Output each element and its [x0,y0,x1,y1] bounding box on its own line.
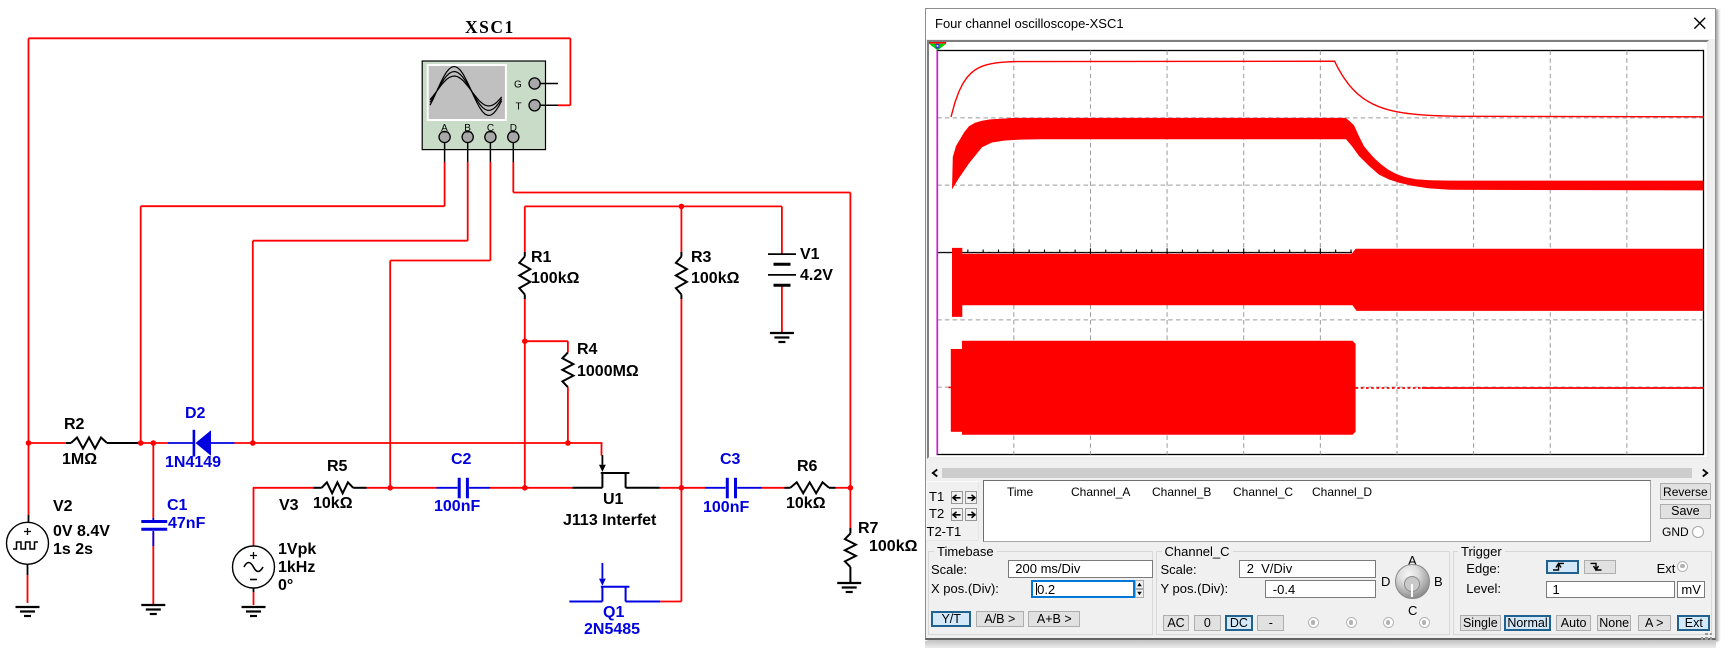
svg-text:G: G [514,80,522,91]
svg-text:T: T [516,102,522,113]
